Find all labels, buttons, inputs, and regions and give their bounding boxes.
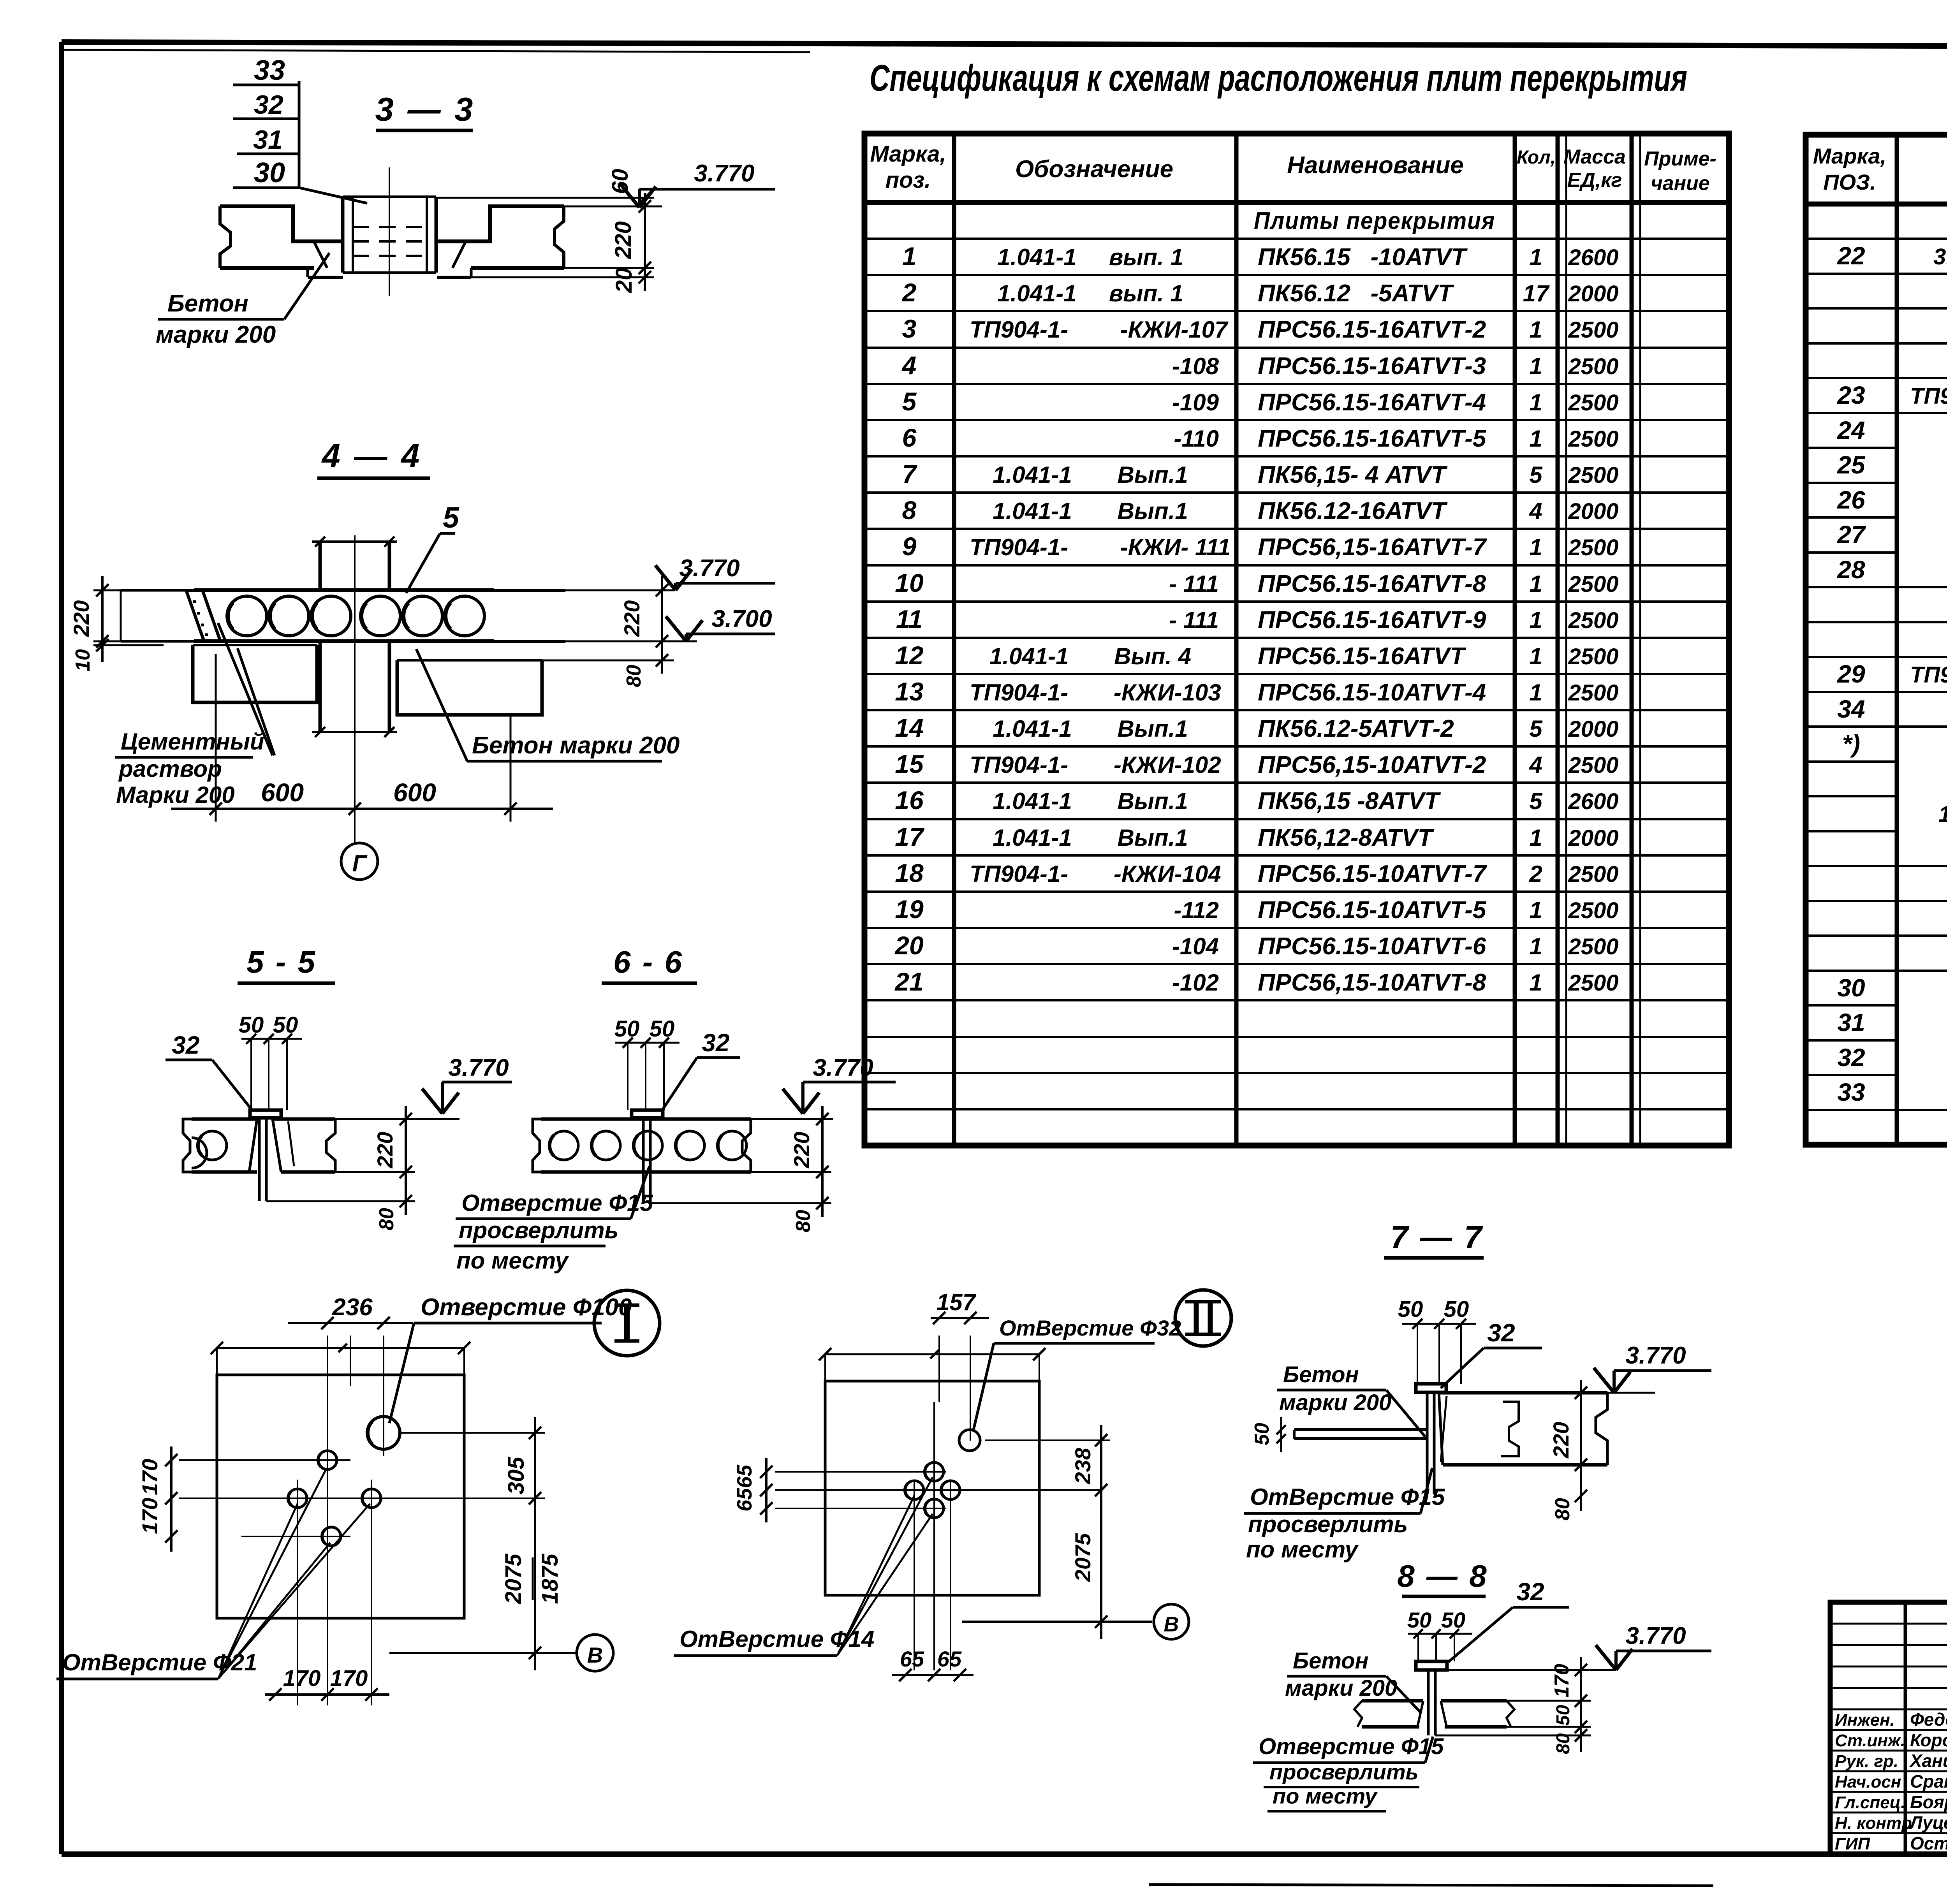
svg-text:раствор: раствор: [118, 756, 222, 782]
svg-text:7: 7: [902, 459, 918, 488]
svg-text:1.041-1 Вып. 4: 1.041-1 Вып. 4: [989, 643, 1191, 669]
section 7-7 detail: [1244, 1219, 1711, 1563]
svg-text:ТП904-1- -КЖ лист 49: ТП904-1- -КЖ лист 49: [1910, 384, 1947, 409]
svg-text:ПРС56.15-16АТVТ-4: ПРС56.15-16АТVТ-4: [1258, 389, 1486, 416]
svg-text:ПК56.12-16АТVТ: ПК56.12-16АТVТ: [1258, 498, 1448, 524]
svg-text:ПРС56.15-16АТVТ-5: ПРС56.15-16АТVТ-5: [1258, 425, 1487, 452]
svg-text:2075: 2075: [501, 1554, 526, 1605]
svg-text:3.770: 3.770: [694, 160, 754, 187]
svg-text:3.770: 3.770: [1625, 1622, 1686, 1649]
svg-text:Гл.спец.: Гл.спец.: [1835, 1793, 1905, 1812]
svg-text:13: 13: [895, 677, 923, 706]
svg-text:1.041-1 Вып.1: 1.041-1 Вып.1: [993, 716, 1188, 742]
svg-text:5: 5: [1529, 716, 1543, 742]
svg-text:ПОЗ.: ПОЗ.: [1823, 170, 1876, 194]
sheet title: [870, 57, 1687, 99]
svg-text:33: 33: [254, 55, 285, 86]
svg-text:чание: чание: [1651, 172, 1709, 195]
svg-text:220: 220: [620, 600, 644, 637]
svg-text:2500: 2500: [1568, 463, 1618, 488]
svg-text:Спецификация к схемам располож: Спецификация к схемам расположения плит …: [870, 57, 1687, 99]
svg-text:1.041-1 вып. 1: 1.041-1 вып. 1: [997, 280, 1183, 306]
svg-text:Инжен.: Инжен.: [1835, 1710, 1895, 1730]
svg-text:1.041-1 Вып.1: 1.041-1 Вып.1: [993, 462, 1188, 488]
svg-text:ПРС56.15-16АТVТ: ПРС56.15-16АТVТ: [1258, 643, 1466, 670]
svg-text:32: 32: [172, 1031, 199, 1059]
svg-text:ПК56.12-5АТVТ-2: ПК56.12-5АТVТ-2: [1258, 715, 1454, 742]
svg-text:Плиты перекрытия: Плиты перекрытия: [1254, 208, 1495, 234]
svg-text:4: 4: [1529, 498, 1542, 524]
svg-text:Сракьянц: Сракьянц: [1910, 1771, 1947, 1791]
svg-text:2600: 2600: [1568, 245, 1618, 270]
svg-text:ОтВерстие Ф21: ОтВерстие Ф21: [62, 1649, 257, 1675]
svg-text:2500: 2500: [1568, 680, 1618, 706]
svg-text:ПРС56.15-10АТVТ-4: ПРС56.15-10АТVТ-4: [1258, 679, 1486, 706]
svg-text:3.700: 3.700: [711, 605, 772, 632]
svg-text:1: 1: [1529, 679, 1542, 706]
svg-text:ПРС56.15-10АТVТ-6: ПРС56.15-10АТVТ-6: [1258, 933, 1486, 960]
svg-text:34: 34: [1837, 695, 1865, 723]
svg-text:марки 200: марки 200: [156, 321, 276, 348]
svg-text:1.041-1 вып. 1: 1.041-1 вып. 1: [997, 244, 1183, 270]
svg-text:1: 1: [1529, 244, 1542, 270]
svg-text:170: 170: [1551, 1664, 1573, 1698]
svg-text:3.770: 3.770: [679, 555, 739, 582]
svg-text:Марка,: Марка,: [1813, 144, 1886, 168]
svg-text:марки 200: марки 200: [1285, 1675, 1397, 1701]
svg-text:2: 2: [1529, 861, 1542, 887]
svg-text:5: 5: [902, 387, 917, 416]
svg-text:ПРС56.15-16АТVТ-8: ПРС56.15-16АТVТ-8: [1258, 570, 1486, 597]
svg-text:марки 200: марки 200: [1279, 1390, 1391, 1415]
svg-text:Г: Г: [352, 850, 368, 876]
svg-text:80: 80: [1551, 1498, 1574, 1520]
svg-text:2500: 2500: [1568, 354, 1618, 379]
svg-text:Федотова: Федотова: [1910, 1709, 1947, 1730]
svg-text:220: 220: [789, 1132, 814, 1168]
svg-text:16: 16: [895, 786, 924, 815]
svg-text:Марка,: Марка,: [870, 141, 946, 167]
svg-text:1.041-1 Вып.1: 1.041-1 Вып.1: [993, 498, 1188, 524]
svg-text:1: 1: [1529, 571, 1542, 597]
svg-text:1: 1: [1529, 933, 1542, 959]
svg-text:1: 1: [1529, 607, 1542, 633]
svg-text:Луценко: Луценко: [1909, 1812, 1947, 1833]
svg-text:1: 1: [1529, 643, 1542, 669]
svg-text:поз.: поз.: [885, 167, 931, 193]
svg-text:- 111: - 111: [1169, 571, 1219, 597]
svg-text:20: 20: [894, 931, 924, 960]
svg-text:9: 9: [902, 532, 917, 561]
svg-text:1: 1: [1529, 825, 1542, 851]
svg-text:просверлить: просверлить: [1248, 1511, 1408, 1537]
svg-text:ПРС56.15-16АТVТ-9: ПРС56.15-16АТVТ-9: [1258, 607, 1486, 633]
svg-text:22: 22: [1837, 242, 1865, 270]
svg-text:-102: -102: [1172, 970, 1219, 996]
title block stamp: [1830, 1602, 1947, 1860]
svg-text:220: 220: [1549, 1422, 1573, 1459]
svg-text:ПРС56.15-16АТVТ-3: ПРС56.15-16АТVТ-3: [1258, 353, 1486, 380]
left specification table: [864, 134, 1729, 1146]
svg-text:600: 600: [393, 778, 436, 807]
svg-text:50: 50: [614, 1016, 640, 1042]
svg-text:Ст.инж.: Ст.инж.: [1835, 1731, 1905, 1750]
svg-text:2000: 2000: [1568, 281, 1618, 306]
svg-text:-104: -104: [1172, 933, 1219, 959]
svg-text:6 - 6: 6 - 6: [613, 945, 683, 979]
svg-text:Бояренко: Бояренко: [1910, 1792, 1947, 1812]
svg-text:80: 80: [375, 1208, 398, 1230]
svg-text:600: 600: [261, 778, 304, 807]
svg-text:27: 27: [1837, 521, 1866, 549]
svg-text:170: 170: [137, 1459, 162, 1495]
svg-text:28: 28: [1837, 556, 1865, 584]
svg-text:Цементный: Цементный: [121, 729, 264, 755]
svg-text:по месту: по месту: [1273, 1784, 1378, 1808]
svg-text:31: 31: [1837, 1008, 1865, 1036]
svg-text:2500: 2500: [1568, 934, 1618, 959]
svg-text:30: 30: [1837, 974, 1865, 1002]
svg-text:2500: 2500: [1568, 572, 1618, 597]
svg-text:Кол,: Кол,: [1517, 147, 1556, 168]
svg-text:170: 170: [283, 1666, 321, 1691]
svg-text:-110: -110: [1174, 426, 1219, 452]
svg-text:50: 50: [1398, 1297, 1423, 1322]
svg-text:ПРС56.15-16АТVТ-2: ПРС56.15-16АТVТ-2: [1258, 316, 1486, 343]
svg-text:50: 50: [1251, 1423, 1273, 1445]
svg-text:Бетон: Бетон: [1283, 1362, 1359, 1387]
svg-text:170: 170: [137, 1498, 162, 1534]
svg-text:6: 6: [902, 423, 917, 452]
svg-text:4 — 4: 4 — 4: [321, 438, 422, 475]
svg-text:1.041-1 Вып.1: 1.041-1 Вып.1: [993, 825, 1188, 851]
svg-text:32: 32: [254, 90, 283, 120]
svg-text:-112: -112: [1174, 897, 1219, 923]
svg-text:14: 14: [895, 713, 923, 742]
svg-text:238: 238: [1070, 1447, 1095, 1484]
svg-text:5: 5: [1529, 462, 1543, 488]
svg-text:65: 65: [937, 1647, 962, 1671]
svg-text:220: 220: [611, 221, 636, 259]
svg-text:236: 236: [332, 1294, 373, 1321]
svg-text:50: 50: [1407, 1608, 1431, 1632]
svg-text:1: 1: [1529, 426, 1542, 452]
section 4-4 detail: [69, 438, 775, 880]
svg-text:по месту: по месту: [1246, 1536, 1359, 1563]
svg-text:2500: 2500: [1568, 390, 1618, 415]
svg-text:60: 60: [607, 169, 633, 194]
svg-text:2500: 2500: [1568, 970, 1618, 996]
svg-text:Бетон: Бетон: [167, 290, 248, 317]
svg-text:ТП904-1- -КЖИ-107: ТП904-1- -КЖИ-107: [970, 317, 1229, 343]
svg-text:25: 25: [1837, 451, 1866, 479]
svg-text:2500: 2500: [1568, 644, 1618, 669]
svg-text:ПРС56,15-10АТVТ-2: ПРС56,15-10АТVТ-2: [1258, 751, 1486, 778]
svg-text:Наименование: Наименование: [1287, 152, 1464, 179]
svg-text:Масса: Масса: [1563, 146, 1626, 168]
svg-text:80: 80: [1553, 1733, 1574, 1754]
svg-text:26: 26: [1837, 486, 1865, 514]
svg-text:65: 65: [733, 1488, 756, 1512]
svg-text:1: 1: [902, 242, 917, 271]
svg-text:29: 29: [1837, 660, 1865, 688]
svg-text:50: 50: [650, 1016, 675, 1042]
svg-text:Обозначение: Обозначение: [1015, 156, 1173, 183]
svg-text:- 111: - 111: [1169, 607, 1219, 633]
svg-text:2: 2: [901, 278, 917, 307]
svg-text:21: 21: [894, 967, 923, 996]
svg-text:-109: -109: [1172, 389, 1219, 415]
svg-text:32: 32: [1837, 1044, 1865, 1072]
svg-text:ПК56.15 -10АТVТ: ПК56.15 -10АТVТ: [1258, 244, 1468, 271]
section 6-6 detail: [454, 945, 896, 1274]
svg-text:ПРС56,15-16АТVТ-7: ПРС56,15-16АТVТ-7: [1258, 534, 1487, 561]
svg-text:ТП904-1- -КЖИ- 111: ТП904-1- -КЖИ- 111: [970, 534, 1231, 560]
svg-text:Отверстие Ф15: Отверстие Ф15: [461, 1190, 653, 1216]
svg-text:2000: 2000: [1568, 716, 1618, 742]
svg-text:1: 1: [1529, 353, 1542, 379]
svg-text:В: В: [1164, 1613, 1179, 1636]
svg-text:50: 50: [1553, 1705, 1574, 1726]
svg-text:7 — 7: 7 — 7: [1391, 1219, 1484, 1255]
svg-text:ПРС56.15-10АТVТ-7: ПРС56.15-10АТVТ-7: [1258, 860, 1487, 887]
svg-text:ТП904-1- -КЖИ-104: ТП904-1- -КЖИ-104: [970, 861, 1221, 887]
svg-text:3. 006- 2 Вып. П- 2: 3. 006- 2 Вып. П- 2: [1933, 244, 1947, 269]
svg-text:ТП904-1- -КЖИ-МС1: ТП904-1- -КЖИ-МС1: [1910, 662, 1947, 688]
svg-text:1.020 - 1 Вып.10-1: 1.020 - 1 Вып.10-1: [1938, 802, 1947, 827]
svg-text:17: 17: [895, 822, 925, 851]
svg-text:1: 1: [1529, 317, 1542, 343]
svg-text:1.041-1 Вып.1: 1.041-1 Вып.1: [993, 788, 1188, 814]
svg-text:10: 10: [72, 649, 94, 672]
svg-text:50: 50: [273, 1012, 298, 1038]
section 8-8 detail: [1253, 1559, 1711, 1811]
hole layout plan II: [674, 1289, 1231, 1681]
svg-text:Осташевск.: Осташевск.: [1910, 1833, 1947, 1853]
svg-text:Коротенко: Коротенко: [1910, 1730, 1947, 1750]
svg-text:2500: 2500: [1568, 317, 1618, 343]
svg-text:50: 50: [1441, 1608, 1465, 1632]
svg-text:ПРС56.15-10АТVТ-5: ПРС56.15-10АТVТ-5: [1258, 897, 1487, 924]
svg-text:Марки 200: Марки 200: [116, 782, 235, 808]
svg-text:4: 4: [901, 351, 917, 380]
svg-text:2500: 2500: [1568, 753, 1618, 778]
svg-text:18: 18: [895, 859, 924, 887]
svg-text:65: 65: [900, 1647, 924, 1671]
svg-text:50: 50: [239, 1012, 264, 1038]
svg-text:ПК56.12 -5АТVТ: ПК56.12 -5АТVТ: [1258, 280, 1454, 307]
svg-text:3.770: 3.770: [813, 1054, 873, 1081]
svg-text:15: 15: [895, 750, 924, 778]
right specification table: [1806, 135, 1947, 1145]
section 5-5 detail: [165, 945, 512, 1230]
hole layout plan I: [56, 1290, 660, 1705]
svg-text:просверлить: просверлить: [1269, 1760, 1419, 1784]
svg-text:305: 305: [503, 1457, 529, 1495]
svg-text:ОтВерстие Ф32: ОтВерстие Ф32: [999, 1316, 1181, 1340]
svg-text:1875: 1875: [537, 1554, 563, 1604]
svg-text:32: 32: [1487, 1319, 1515, 1347]
svg-text:2500: 2500: [1568, 898, 1618, 923]
svg-text:Бетон: Бетон: [1293, 1648, 1369, 1673]
svg-text:Отверстие Ф15: Отверстие Ф15: [1259, 1734, 1444, 1759]
svg-text:80: 80: [792, 1210, 815, 1232]
svg-text:5: 5: [443, 501, 459, 534]
svg-text:24: 24: [1837, 416, 1865, 444]
svg-text:3: 3: [902, 314, 917, 343]
svg-text:по месту: по месту: [456, 1248, 569, 1274]
svg-text:Н. контр: Н. контр: [1835, 1814, 1912, 1833]
svg-text:80: 80: [623, 665, 645, 687]
svg-text:2600: 2600: [1568, 789, 1618, 814]
svg-text:Нач.осн: Нач.осн: [1835, 1772, 1901, 1791]
svg-text:1: 1: [1529, 897, 1542, 923]
svg-text:157: 157: [937, 1289, 977, 1315]
svg-text:220: 220: [373, 1132, 397, 1168]
svg-text:4: 4: [1529, 752, 1542, 778]
svg-text:ТП904-1- -КЖИ-103: ТП904-1- -КЖИ-103: [970, 679, 1221, 706]
svg-text:Рук. гр.: Рук. гр.: [1835, 1752, 1898, 1771]
svg-text:32: 32: [1516, 1578, 1544, 1606]
svg-text:17: 17: [1523, 280, 1550, 306]
svg-text:-108: -108: [1172, 353, 1219, 379]
svg-text:31: 31: [253, 125, 283, 155]
svg-text:1: 1: [1529, 534, 1542, 560]
svg-text:ПК56,15- 4 АТVТ: ПК56,15- 4 АТVТ: [1258, 461, 1448, 488]
svg-text:12: 12: [895, 641, 924, 670]
svg-text:1: 1: [1529, 389, 1542, 415]
svg-text:11: 11: [896, 605, 923, 633]
svg-text:20: 20: [611, 267, 637, 293]
svg-text:5 - 5: 5 - 5: [246, 945, 317, 979]
svg-text:В: В: [587, 1643, 603, 1667]
svg-text:2500: 2500: [1568, 426, 1618, 452]
svg-text:33: 33: [1837, 1078, 1865, 1106]
svg-text:*): *): [1842, 730, 1860, 758]
svg-text:2000: 2000: [1568, 499, 1618, 524]
svg-text:8 — 8: 8 — 8: [1397, 1559, 1488, 1593]
svg-text:2500: 2500: [1568, 862, 1618, 887]
svg-text:ГИП: ГИП: [1835, 1834, 1871, 1853]
svg-text:3.770: 3.770: [448, 1054, 509, 1081]
svg-text:просверлить: просверлить: [459, 1217, 618, 1243]
svg-text:170: 170: [330, 1666, 368, 1691]
svg-text:19: 19: [895, 895, 924, 924]
svg-text:8: 8: [902, 496, 917, 524]
svg-text:30: 30: [254, 157, 285, 188]
svg-text:ТП904-1- -КЖИ-102: ТП904-1- -КЖИ-102: [970, 752, 1221, 778]
section 3-3 detail: [156, 55, 775, 348]
svg-text:ОтВерстие Ф15: ОтВерстие Ф15: [1250, 1484, 1445, 1510]
svg-text:Ханин: Ханин: [1909, 1751, 1947, 1771]
svg-text:Бетон марки 200: Бетон марки 200: [472, 732, 680, 759]
svg-text:ПК56,15 -8АТVТ: ПК56,15 -8АТVТ: [1258, 788, 1441, 815]
svg-text:3.770: 3.770: [1625, 1342, 1686, 1369]
svg-text:5: 5: [1529, 788, 1543, 814]
svg-text:Приме-: Приме-: [1644, 148, 1716, 170]
svg-text:2075: 2075: [1070, 1533, 1095, 1582]
svg-text:ЕД,кг: ЕД,кг: [1567, 169, 1622, 192]
svg-text:10: 10: [895, 568, 924, 597]
svg-text:23: 23: [1837, 381, 1865, 409]
svg-text:220: 220: [69, 600, 93, 637]
scan artifact line bottom: [1149, 1885, 1713, 1886]
svg-text:ПРС56,15-10АТVТ-8: ПРС56,15-10АТVТ-8: [1258, 969, 1486, 996]
svg-text:2500: 2500: [1568, 608, 1618, 633]
svg-text:65: 65: [733, 1464, 756, 1488]
svg-text:2000: 2000: [1568, 825, 1618, 851]
svg-text:32: 32: [702, 1029, 729, 1057]
svg-text:ПК56,12-8АТVТ: ПК56,12-8АТVТ: [1258, 824, 1435, 851]
svg-text:2500: 2500: [1568, 535, 1618, 560]
svg-text:1: 1: [1529, 970, 1542, 996]
svg-text:3 — 3: 3 — 3: [375, 91, 475, 128]
